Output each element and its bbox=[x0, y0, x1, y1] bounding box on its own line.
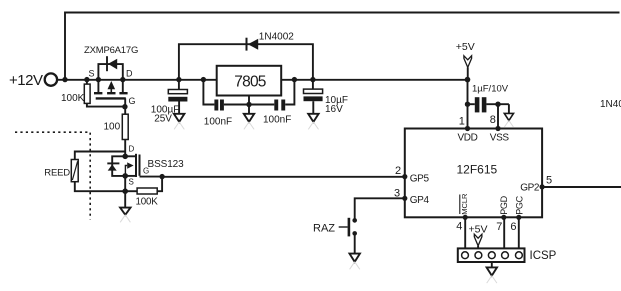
svg-text:RAZ: RAZ bbox=[313, 222, 335, 234]
ground below ICSP bbox=[487, 267, 497, 275]
svg-text:GP2: GP2 bbox=[520, 182, 540, 193]
transistor Q2 source lead bbox=[125, 175, 136, 177]
node D of Q2 bbox=[122, 154, 128, 160]
node G of Q1 bbox=[122, 104, 127, 109]
wire GP5 net bbox=[162, 176, 405, 178]
transistor Q2 channel bar bbox=[135, 154, 137, 177]
svg-text:D: D bbox=[129, 145, 135, 154]
capacitor C2 100nF bbox=[203, 80, 214, 105]
svg-text:8: 8 bbox=[490, 114, 496, 126]
svg-text:VDD: VDD bbox=[458, 133, 478, 144]
resistor R3 100K horizontal bbox=[125, 190, 137, 192]
node +12V terminal bbox=[45, 73, 57, 85]
svg-text:MCLR: MCLR bbox=[460, 193, 469, 215]
wire VSS vertical bbox=[497, 104, 499, 128]
transistor Q1 source stub bbox=[97, 80, 99, 93]
push button RAZ bbox=[352, 218, 357, 223]
ground right of C5 bbox=[508, 104, 510, 113]
transistor Q1 gate plate bbox=[96, 97, 126, 99]
node pin7 bbox=[501, 215, 506, 220]
capacitor C5 1uF/10V bbox=[468, 103, 475, 105]
transistor Q2 body diode triangle bbox=[108, 164, 117, 170]
svg-text:6: 6 bbox=[510, 221, 516, 233]
svg-text:100nF: 100nF bbox=[263, 114, 291, 125]
svg-text:7805: 7805 bbox=[234, 73, 265, 90]
transistor Q2 body diode loop bbox=[112, 156, 125, 176]
reed switch bbox=[71, 160, 78, 182]
node pin3 bbox=[402, 196, 407, 201]
svg-text:+12V: +12V bbox=[9, 72, 43, 89]
svg-text:+5V: +5V bbox=[469, 223, 488, 235]
wire top rail bbox=[65, 13, 620, 80]
node junction at +12V branch bbox=[62, 77, 67, 82]
wire GP2 net bbox=[542, 186, 621, 188]
wire 7805 ground lead bbox=[248, 96, 250, 105]
svg-text:25V: 25V bbox=[154, 114, 172, 125]
capacitor C4 10uF bbox=[312, 80, 314, 90]
svg-text:2: 2 bbox=[395, 165, 401, 177]
node pin5 bbox=[540, 184, 545, 189]
transistor Q1 drain contact bar bbox=[119, 92, 127, 94]
svg-text:1µF/10V: 1µF/10V bbox=[472, 83, 509, 94]
node C5 right bbox=[495, 102, 500, 107]
svg-text:BSS123: BSS123 bbox=[148, 159, 185, 170]
wire VDD vertical bbox=[467, 80, 469, 129]
svg-text:12F615: 12F615 bbox=[457, 162, 498, 176]
transistor Q1 ZXMP6A17G body diode loop bbox=[98, 64, 122, 80]
svg-text:VSS: VSS bbox=[490, 133, 510, 144]
wire ICSP ground bbox=[491, 262, 493, 267]
wire RAZ to ground bbox=[354, 233, 356, 253]
wire GP4 to RAZ bbox=[355, 198, 405, 220]
transistor Q2 gate lead bbox=[140, 176, 163, 178]
svg-text:1N40: 1N40 bbox=[600, 99, 621, 110]
svg-text:REED: REED bbox=[44, 167, 70, 178]
dashed enclosure bbox=[15, 132, 90, 219]
regulator U2 7805 bbox=[217, 66, 282, 96]
svg-text:GP4: GP4 bbox=[410, 195, 430, 206]
node pin1 bbox=[465, 126, 470, 131]
wire pin7 to ICSP bbox=[503, 217, 505, 252]
ground below C4 bbox=[308, 114, 318, 122]
op-amp U1 12F615 box bbox=[405, 129, 542, 218]
transistor Q1 bulk arrow bbox=[108, 81, 116, 89]
svg-text:G: G bbox=[129, 96, 136, 106]
diode D1 cathode bar bbox=[246, 38, 248, 51]
svg-text:S: S bbox=[129, 178, 134, 187]
ground below 7805 bbox=[248, 105, 250, 114]
svg-text:D: D bbox=[126, 68, 133, 78]
svg-text:PGD: PGD bbox=[499, 195, 509, 214]
svg-text:7: 7 bbox=[496, 221, 502, 233]
node C5 left bbox=[465, 102, 470, 107]
node pin8 bbox=[495, 126, 500, 131]
svg-text:GP5: GP5 bbox=[410, 173, 430, 184]
transistor Q1 body diode cathode bar bbox=[106, 56, 108, 71]
node +5V junction bbox=[465, 77, 471, 83]
svg-text:1N4002: 1N4002 bbox=[259, 32, 294, 43]
svg-text:100: 100 bbox=[104, 122, 121, 133]
ground below reed node bbox=[124, 191, 126, 207]
diode D1 1N4002 loop bbox=[179, 44, 313, 79]
svg-text:+5V: +5V bbox=[456, 41, 475, 53]
svg-text:16V: 16V bbox=[325, 104, 343, 115]
node S of Q2 bbox=[122, 173, 128, 179]
node 100nF1 rail junction bbox=[201, 77, 206, 82]
ground below RAZ bbox=[350, 254, 360, 262]
svg-text:ZXMP6A17G: ZXMP6A17G bbox=[84, 45, 138, 56]
transistor Q2 body diode cathode bar bbox=[107, 162, 119, 164]
node gate junction Q2 bbox=[159, 174, 164, 179]
wire 7805 output rail bbox=[281, 79, 467, 81]
capacitor C1 100uF bbox=[178, 80, 180, 90]
svg-text:100nF: 100nF bbox=[204, 116, 232, 127]
svg-text:4: 4 bbox=[456, 220, 462, 232]
node S of Q1 bbox=[96, 77, 101, 82]
transistor Q2 bulk arrow bbox=[127, 162, 133, 168]
transistor Q2 drain lead bbox=[125, 155, 136, 157]
transistor Q1 body diode triangle bbox=[108, 59, 117, 70]
node 100uF junction bbox=[176, 77, 181, 82]
node pin2 bbox=[402, 174, 407, 179]
node ground node bbox=[246, 102, 251, 107]
node D of Q1 bbox=[120, 77, 125, 82]
svg-text:100K: 100K bbox=[61, 93, 85, 104]
svg-text:PGC: PGC bbox=[514, 195, 524, 214]
node bottom junction bbox=[122, 188, 128, 194]
svg-text:100K: 100K bbox=[136, 196, 159, 207]
svg-text:S: S bbox=[89, 68, 95, 78]
node junction 100K top bbox=[84, 77, 89, 82]
wire pin4 to ICSP bbox=[464, 217, 466, 252]
transistor Q1 gate lead bbox=[124, 98, 126, 106]
transistor Q1 drain stub bbox=[122, 80, 124, 93]
node 7805 output junction bbox=[292, 77, 297, 82]
diode D1 triangle bbox=[248, 39, 258, 50]
transistor Q1 bulk contact bar bbox=[107, 92, 115, 94]
node pin6 bbox=[516, 215, 521, 220]
capacitor C3 100nF bbox=[249, 104, 274, 106]
svg-text:1: 1 bbox=[459, 116, 465, 128]
wire pin6 to ICSP bbox=[518, 217, 520, 252]
resistor R2 100 bbox=[124, 107, 126, 115]
resistor R1 100K bbox=[86, 80, 88, 85]
connector ICSP pin circles bbox=[462, 252, 469, 259]
svg-text:ICSP: ICSP bbox=[530, 250, 557, 262]
svg-text:5: 5 bbox=[546, 175, 552, 187]
connector ICSP box bbox=[458, 248, 525, 262]
node 10uF junction bbox=[310, 77, 315, 82]
node pin4 bbox=[463, 215, 468, 220]
wire +12V input rail bbox=[57, 79, 217, 81]
ground below C1 bbox=[174, 114, 185, 122]
transistor Q1 source contact bar bbox=[94, 92, 102, 94]
transistor Q2 gate bar bbox=[139, 155, 141, 176]
wire Q2 source to bottom node bbox=[124, 176, 126, 191]
